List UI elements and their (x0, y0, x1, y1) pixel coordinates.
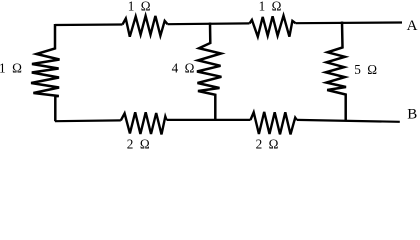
resistor 2 ohm (bottom right, horizontal) (251, 112, 297, 134)
svg-text:2 Ω: 2 Ω (256, 136, 279, 151)
resistor 1 ohm (top left, horizontal) (123, 16, 168, 37)
wire top rail left segment (55, 23, 123, 26)
resistor 5 ohm (right vertical branch with leads) (326, 22, 346, 122)
resistor 1 ohm (top right, horizontal) (250, 16, 296, 37)
resistor 1 ohm (left vertical branch with leads) (31, 24, 59, 121)
wire bottom rail right segment to node B (297, 120, 400, 122)
svg-text:1 Ω: 1 Ω (128, 0, 151, 14)
svg-text:B: B (407, 107, 417, 123)
wire top rail middle segment (168, 22, 250, 25)
wire bottom rail left segment (55, 119, 121, 122)
wire bottom rail middle segment (167, 119, 251, 121)
svg-text:A: A (407, 18, 418, 34)
svg-text:1 Ω: 1 Ω (0, 61, 22, 76)
svg-text:2 Ω: 2 Ω (127, 136, 150, 151)
resistor 4 ohm (middle vertical branch with leads) (197, 23, 221, 122)
svg-text:4 Ω: 4 Ω (172, 61, 195, 76)
wire top rail right segment to node A (296, 21, 403, 24)
svg-text:1 Ω: 1 Ω (259, 0, 282, 14)
svg-text:5 Ω: 5 Ω (354, 62, 377, 77)
resistor 2 ohm (bottom left, horizontal) (121, 112, 167, 134)
